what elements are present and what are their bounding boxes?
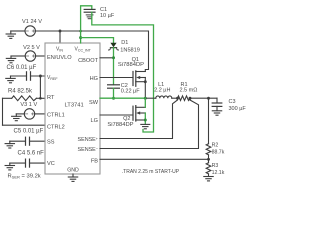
ground (C1 bottom) (86, 15, 93, 19)
ground (IC GND pin) (68, 174, 77, 181)
svg-text:C3: C3 (229, 99, 236, 105)
wire D1 cathode to CBOOT node (green) (113, 48, 115, 85)
wire VCC_INT riser (green) (81, 6, 92, 43)
svg-text:300 µF: 300 µF (229, 106, 247, 112)
wire CBOOT pin (100, 57, 114, 59)
node CBOOT junction dot (112, 56, 115, 59)
node Q2 source dot (144, 119, 147, 122)
svg-text:10 µF: 10 µF (100, 13, 115, 19)
node VCC_INT branch dot (79, 36, 82, 39)
wire V3 to CTRL1 pin (35, 113, 45, 115)
svg-text:SS: SS (47, 139, 55, 145)
op-amp U1 LT3741 controller box (45, 43, 100, 174)
node rail/VCC riser crossing dot (79, 30, 82, 33)
svg-text:88.7k: 88.7k (212, 149, 225, 155)
ground (V1 negative terminal) (6, 31, 15, 38)
svg-text:CTRL2: CTRL2 (47, 125, 65, 131)
svg-text:1N5819: 1N5819 (120, 48, 140, 54)
wire V2 minus to ground (11, 55, 25, 57)
diode D1 1N5819 (109, 40, 140, 54)
capacitor C5 0.01 uF (14, 129, 44, 146)
node RT junction dot (39, 97, 42, 100)
resistor R3 12.1k (206, 163, 224, 177)
wire R2 to FB node (208, 155, 210, 159)
wire C5 left plate to ground (10, 140, 26, 142)
capacitor C1 10 uF (84, 7, 115, 19)
svg-text:RSER = 39.2k: RSER = 39.2k (8, 174, 41, 180)
wire C1 bottom (green) long run to lower right (92, 12, 154, 132)
wire V1 minus to ground (11, 30, 25, 32)
svg-text:V3 1 V: V3 1 V (20, 102, 37, 108)
svg-text:RT: RT (47, 95, 55, 101)
wire C6 left plate to ground (11, 75, 27, 77)
ground (C3 bottom) (212, 111, 221, 115)
svg-text:SENSE+: SENSE+ (78, 137, 99, 143)
wire FB node to R3 (208, 159, 210, 162)
wire SENSE- tap (100, 98, 199, 148)
resistor R2 88.7k (206, 143, 224, 156)
capacitor C3 300 uF (212, 98, 246, 112)
resistor R1 2.5 mOhm (178, 82, 198, 100)
ground (R3 bottom) (204, 177, 213, 181)
svg-text:C5 0.01 µF: C5 0.01 µF (14, 129, 44, 135)
node VREF junction dot (39, 75, 42, 78)
wire V2 to EN/UVLO pin (36, 55, 45, 57)
node R1 right dot (189, 97, 192, 100)
wire V1 rail to Q1 drain branch (35, 31, 148, 72)
wire output node down to R2 (208, 98, 210, 144)
capacitor C2 0.22 uF (108, 83, 141, 94)
transistor Q1 Si7884DP (118, 57, 147, 98)
node C2/SW junction dot (112, 97, 115, 100)
svg-text:D1: D1 (121, 40, 128, 46)
node VIN junction dot (59, 30, 62, 33)
wire VCC_INT to D1 anode (green) (81, 38, 114, 43)
wire C4 to VC pin (30, 162, 46, 164)
ground (Q2 source) (141, 124, 150, 128)
svg-text:CBOOT: CBOOT (78, 58, 98, 64)
wire SENSE+ tap (100, 98, 178, 138)
wire VREF node down to RT wire (39, 76, 41, 98)
svg-text:C4 5.6 nF: C4 5.6 nF (18, 151, 45, 157)
wire C5 to SS pin (30, 140, 46, 142)
voltage source V1 24 V (22, 19, 42, 36)
ground (V3 negative terminal) (12, 114, 21, 121)
svg-text:VC: VC (47, 161, 55, 167)
wire Q2 drain to SW (green) (144, 98, 146, 107)
wire R1 to output node (190, 97, 217, 99)
svg-text:V1 24 V: V1 24 V (22, 19, 42, 25)
wire CTRL2 (3, 124, 46, 126)
ground (C4 left) (5, 163, 14, 170)
wire C4 left plate to ground (10, 162, 26, 164)
wire C2 bottom to SW (green) (113, 88, 115, 98)
wire LG pin to Q2 gate (100, 114, 133, 116)
svg-text:V2 5 V: V2 5 V (23, 45, 40, 51)
svg-text:C1: C1 (100, 7, 107, 13)
wire V3 minus to ground (16, 113, 24, 115)
svg-text:FB: FB (91, 158, 98, 164)
wire SW to L1 (145, 97, 156, 99)
wire R4 right to RT pin (36, 97, 45, 99)
wire FB pin (100, 158, 209, 160)
inductor L1 2.2 uH (154, 82, 172, 98)
ground (C5 left) (5, 141, 14, 148)
svg-text:LG: LG (91, 118, 98, 124)
svg-text:C6 0.01 µF: C6 0.01 µF (7, 65, 37, 71)
wire VIN riser (59, 31, 61, 43)
svg-text:R2: R2 (212, 143, 219, 149)
wire L1 to R1 (172, 97, 178, 99)
resistor R4 82.5k (8, 88, 36, 100)
node output junction dot (207, 97, 210, 100)
svg-text:2.5 mΩ: 2.5 mΩ (179, 87, 197, 93)
node R1 left dot (176, 97, 179, 100)
ground (C6 left) (6, 76, 15, 83)
svg-text:LT3741: LT3741 (65, 103, 84, 109)
svg-text:R3: R3 (212, 163, 219, 169)
capacitor C4 5.6 nF (18, 151, 45, 168)
wire left rail down to CTRL2 (2, 98, 4, 125)
svg-text:GND: GND (67, 168, 79, 174)
node FB junction dot (207, 158, 210, 161)
svg-text:EN/UVLO: EN/UVLO (47, 55, 72, 61)
wire R4 left to rail (3, 97, 12, 99)
svg-text:SENSE−: SENSE− (78, 147, 99, 153)
svg-text:12.1k: 12.1k (212, 170, 225, 176)
svg-text:Si7884DP: Si7884DP (118, 62, 144, 68)
svg-text:CTRL1: CTRL1 (47, 113, 65, 119)
svg-text:.TRAN 2.25 m START-UP: .TRAN 2.25 m START-UP (122, 169, 180, 175)
voltage source V2 5 V (23, 45, 40, 61)
svg-text:0.22 µF: 0.22 µF (121, 88, 140, 94)
svg-text:2.2 µH: 2.2 µH (154, 87, 170, 93)
svg-text:Si7884DP: Si7884DP (107, 122, 133, 128)
transistor Q2 Si7884DP (107, 106, 145, 128)
svg-text:HG: HG (90, 76, 98, 82)
capacitor C6 0.01 uF (7, 65, 37, 80)
svg-text:R4 82.5k: R4 82.5k (8, 88, 33, 94)
node SW/Q1 source dot (144, 97, 147, 100)
ground (V2 negative terminal) (6, 56, 15, 63)
wire C6 to VREF pin (31, 75, 46, 77)
wire Q2 source/body (green) (144, 113, 146, 124)
voltage source V3 1 V (20, 102, 37, 119)
wire R3 to ground (208, 174, 210, 176)
wire HG pin to Q1 gate (100, 77, 133, 79)
wire SW pin (green) (100, 97, 145, 99)
svg-text:SW: SW (89, 100, 99, 106)
